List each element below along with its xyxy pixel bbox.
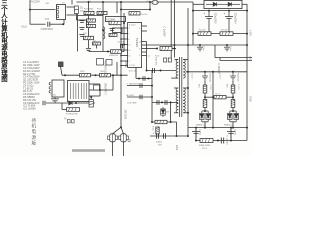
resistor R37 — [156, 127, 159, 134]
junction y33 c — [228, 33, 230, 35]
capacitor C8 bulk — [225, 11, 233, 34]
svg-text:+: + — [223, 12, 225, 16]
capacitor C32 — [51, 97, 59, 103]
junction sb x124 a — [123, 22, 125, 24]
transformer T1 inner windings — [71, 83, 87, 99]
resistor R7 — [220, 32, 233, 36]
junction y44 rail2 — [173, 44, 175, 46]
junction T1 out — [99, 89, 101, 91]
diode D6b — [234, 111, 239, 122]
wire U1 pin vcc — [142, 41, 147, 43]
junction rail188 b — [187, 87, 189, 89]
wire sb link1 — [86, 21, 88, 27]
resistor R14 — [87, 24, 96, 27]
wire D1 to rail — [76, 19, 88, 21]
diode D3 — [222, 2, 240, 6]
wire diode top join1 — [202, 110, 208, 112]
svg-text:+5V: +5V — [249, 56, 252, 61]
wire U1 pin10 out — [142, 30, 147, 32]
wire sb top — [78, 15, 104, 17]
wire stub top — [71, 0, 73, 5]
wire U1 pin c1 — [142, 44, 147, 46]
junction U1 pin 3 rail — [120, 38, 122, 40]
wire filter out bot — [67, 14, 77, 16]
wire T2 sec low tap1 — [183, 87, 188, 89]
junction y122 a — [151, 121, 153, 123]
capacitor C26 — [192, 128, 200, 138]
svg-text:25V: 25V — [158, 144, 162, 146]
wire bus y33 — [193, 33, 247, 35]
wire CY1 right — [50, 23, 64, 25]
wire step y60 — [220, 60, 252, 62]
junction y44 rail — [246, 44, 248, 46]
diode D5a — [200, 111, 205, 122]
vertical text bottom left — [32, 117, 37, 146]
wire vcc bus y44 — [147, 44, 248, 46]
IC U1 internal pin marks — [129, 25, 136, 67]
svg-text:3300u: 3300u — [156, 141, 163, 143]
resistor R11 — [84, 11, 94, 14]
junction y127 a — [195, 127, 197, 129]
junction y10 c — [228, 10, 230, 12]
junction sb bottom — [107, 51, 109, 53]
diode D2 — [206, 2, 222, 6]
junction U1 pin 7 rail — [120, 60, 122, 62]
filter winding marks — [57, 6, 59, 17]
inductor L1 on rail — [103, 27, 105, 39]
capacitor C snub 205 — [202, 72, 208, 81]
svg-text:Rt: Rt — [64, 118, 67, 121]
junction y33 d — [246, 33, 248, 35]
junction y102 b — [170, 101, 172, 103]
svg-text:+12V: +12V — [249, 30, 252, 36]
junction y137 b — [187, 135, 189, 137]
wire y78 up — [135, 68, 137, 79]
wire d2 drop — [232, 122, 234, 128]
junction y10 a — [192, 10, 194, 12]
svg-text:CY1: CY1 — [45, 19, 50, 21]
wire sb mid rail up — [102, 2, 104, 16]
wire R21 to rail — [172, 48, 176, 50]
svg-text:IC3 7905: IC3 7905 — [128, 102, 138, 104]
junction rail188 c — [187, 112, 189, 114]
resistor R20 — [129, 12, 140, 15]
svg-text:DRIVE: DRIVE — [124, 61, 126, 68]
wire filter out top — [67, 6, 77, 8]
transformer T2 core — [180, 57, 182, 117]
capacitor C16 plates — [86, 49, 91, 51]
wire Q1 down — [112, 142, 114, 156]
svg-text:9: 9 — [139, 28, 140, 30]
wire T1 to rail — [100, 89, 113, 91]
transformer T1 main box — [68, 81, 90, 102]
capacitor C15 — [121, 44, 123, 48]
junction rail188 a — [187, 71, 189, 73]
wire T1 out1 — [89, 83, 100, 85]
svg-text:R 4.7k: R 4.7k — [141, 14, 148, 16]
junction y75 c — [112, 74, 114, 76]
junction d1 drop — [204, 127, 206, 129]
resistor R21 — [160, 47, 172, 51]
small box component left of IC — [97, 59, 113, 66]
junction y75 d — [120, 74, 122, 76]
wire T1 out2 — [89, 89, 100, 91]
diode D7 — [161, 107, 166, 117]
wire up to filter — [63, 20, 65, 25]
svg-text:R 330/0.5W: R 330/0.5W — [66, 114, 78, 116]
capacitor C14 — [109, 29, 114, 31]
wire lv y85 — [127, 85, 152, 87]
transformer T2 winding lower right — [183, 88, 185, 113]
svg-text:6: 6 — [128, 39, 129, 41]
junction U1 pin 4 rail — [120, 44, 122, 46]
capacitor C34 — [164, 133, 166, 138]
wire out v2 — [230, 128, 232, 141]
resistor R30 — [203, 85, 207, 93]
capacitor C21 pads — [164, 58, 172, 62]
resistor R34 — [231, 100, 235, 108]
wire top bus left — [76, 1, 151, 3]
wire x176 v — [176, 122, 178, 136]
wire AC lower — [30, 23, 46, 25]
junction elem top — [90, 96, 92, 98]
junction y44 a — [199, 44, 201, 46]
wire x152 low — [151, 71, 153, 123]
wire T2 primary bot tap — [171, 77, 178, 79]
svg-text:POWER GOOD: POWER GOOD — [104, 61, 106, 78]
svg-text:330Ω 1/4W: 330Ω 1/4W — [199, 145, 211, 147]
IC U1 TL494 — [128, 23, 142, 68]
junction y78 b — [148, 78, 150, 80]
svg-text:4700P/250V: 4700P/250V — [41, 29, 54, 31]
wire out top y71 — [186, 71, 247, 73]
svg-text:R3 47k: R3 47k — [221, 30, 229, 32]
wire sb bottom — [89, 51, 125, 53]
svg-text:8 11 12: 8 11 12 — [129, 25, 136, 27]
diode D5b — [206, 111, 211, 122]
wire rail x174 — [173, 0, 175, 58]
svg-text:R11/C25: R11/C25 — [237, 73, 239, 82]
junction y127 d — [246, 127, 248, 129]
junction U1 pin 6 rail — [120, 55, 122, 57]
wire T2 left low tap1 — [174, 87, 178, 89]
wire out bottom y140 — [196, 140, 247, 142]
wire chain1 l3 — [204, 108, 206, 112]
parts list text block — [23, 60, 41, 110]
resistor R16 — [109, 21, 121, 24]
element vertical hatched — [89, 100, 93, 108]
wire step v2 — [219, 58, 221, 61]
resistor R35 — [200, 139, 213, 143]
wire U1 left pin 1 — [121, 27, 128, 29]
wire U1 pin ct — [142, 55, 147, 57]
junction y10 d — [246, 10, 248, 12]
resistor R33 — [231, 85, 235, 93]
svg-text:A u/50V: A u/50V — [127, 94, 135, 97]
wire rail x193 — [192, 2, 194, 45]
junction chain2 mid — [232, 96, 234, 98]
wire U1 left pin 6 — [121, 55, 128, 57]
junction input top — [29, 9, 31, 11]
wire chain2 l2 — [232, 93, 234, 100]
capacitor C11 — [79, 21, 84, 23]
junction at x89 y20 — [88, 19, 90, 21]
junction d2 drop — [232, 127, 234, 129]
junction y140 b — [195, 140, 197, 142]
wire y137 — [150, 135, 188, 137]
junction y33 a — [192, 33, 194, 35]
wire d2 bot — [230, 121, 236, 123]
svg-text:C 103: C 103 — [209, 84, 211, 90]
fuse FU1 — [152, 0, 158, 4]
wire chain2 l3 — [232, 108, 234, 112]
transistor Q2 — [119, 134, 129, 142]
transformer T2 primary winding — [176, 60, 178, 79]
junction diodes1 top — [204, 110, 206, 112]
junction y78 a — [138, 78, 140, 80]
wire rail x247 tail — [246, 128, 248, 141]
junction fb left — [156, 48, 158, 50]
resistor R4a — [100, 74, 111, 77]
junction y75 b — [95, 74, 97, 76]
wire AC line vertical — [29, 0, 31, 24]
IC U1 pin numbers left — [128, 28, 141, 63]
junction diodes2 top — [232, 110, 234, 112]
svg-text:R10/C24: R10/C24 — [209, 73, 211, 82]
wire split right — [121, 127, 124, 134]
svg-text:1000u: 1000u — [234, 129, 236, 136]
wire R23 lead — [62, 109, 67, 111]
wire y97 seg1 — [205, 96, 214, 98]
resistor R19 — [93, 42, 101, 45]
wire out left rail — [187, 8, 189, 136]
wire Q2 down — [123, 142, 125, 156]
wire diode top join2 — [230, 110, 236, 112]
wire T2 sec top tap — [183, 59, 188, 61]
junction rail x89 top — [88, 1, 90, 3]
junction y140 c — [230, 140, 232, 142]
wire x100 v — [99, 84, 101, 96]
wire y78 seg — [136, 78, 152, 80]
wire sb mid rail — [102, 16, 104, 52]
wire split left — [113, 127, 122, 134]
junction sb mid1 — [102, 29, 104, 31]
svg-text:SW: SW — [46, 3, 49, 5]
wire bridge in — [193, 3, 204, 5]
wire rail x117 — [116, 2, 118, 13]
wire y103 ext — [76, 102, 95, 104]
capacitor C28 — [221, 138, 223, 144]
svg-text:Ω: Ω — [128, 138, 131, 143]
resistor R13 — [87, 19, 96, 22]
wire lv y97 — [127, 96, 152, 98]
junction y140 a — [217, 140, 219, 142]
capacitor CY1 — [48, 22, 50, 27]
wire bridge out — [242, 3, 247, 5]
junction y75 a — [64, 74, 66, 76]
capacitor C snub 233 — [230, 72, 236, 81]
wire out v1 — [195, 128, 197, 141]
capacitor C9 stub — [197, 45, 203, 52]
svg-text:13: 13 — [128, 45, 130, 47]
resistor R18 on wire — [111, 50, 122, 54]
wire mid v x213 — [212, 72, 214, 128]
svg-text:GND: GND — [249, 96, 252, 102]
junction y71 a — [204, 71, 206, 73]
junction y127 b — [212, 127, 214, 129]
svg-text:15: 15 — [128, 56, 130, 58]
capacitor C33 — [157, 133, 159, 138]
diode D6a — [228, 111, 233, 122]
junction R21 rail — [173, 48, 175, 50]
gray bar under transistors — [72, 149, 105, 152]
svg-text:330u/200V: 330u/200V — [214, 13, 216, 25]
wire bus y10 — [193, 10, 247, 12]
junction U1 pin 8 rail — [120, 65, 122, 67]
svg-text:C 1000u/16V: C 1000u/16V — [127, 83, 140, 85]
component right of T1 — [94, 85, 100, 90]
transformer T2 secondary winding upper — [183, 60, 185, 79]
transformer T1 left windings — [49, 83, 51, 94]
wire U1 left pin 8 — [121, 65, 128, 67]
junction y122 b — [170, 121, 172, 123]
svg-text:AC220V: AC220V — [31, 1, 40, 4]
svg-text:C 1u/50V: C 1u/50V — [163, 27, 166, 37]
svg-text:2SC3039: 2SC3039 — [123, 110, 125, 120]
junction sb rail top — [102, 1, 104, 3]
wire rail x121 — [120, 2, 122, 127]
capacitor C5a — [140, 83, 142, 88]
svg-text:N1Ω: N1Ω — [22, 26, 27, 29]
capacitor C30 — [165, 100, 167, 105]
svg-text:C 1u: C 1u — [202, 46, 204, 51]
wire U1 left pin 3 — [121, 38, 128, 40]
junction y71 b — [232, 71, 234, 73]
svg-text:C15 102: C15 102 — [117, 41, 126, 43]
junction sb x124 b — [123, 44, 125, 46]
IC U3 box — [106, 17, 126, 22]
wire R23 left — [61, 103, 63, 110]
wire x150 drop — [149, 2, 151, 10]
svg-text:C30 472: C30 472 — [155, 57, 157, 66]
wire T1 left bot — [54, 96, 56, 98]
svg-text:2: 2 — [128, 61, 129, 63]
resistor R5a — [80, 74, 91, 77]
svg-text:C 472: C 472 — [219, 73, 221, 79]
resistor R36 — [155, 120, 167, 123]
junction y44 b — [226, 44, 228, 46]
capacitor C13 — [79, 35, 84, 37]
junction R31 left — [212, 96, 214, 98]
wire elem up — [90, 97, 92, 100]
svg-text:+: + — [203, 12, 205, 16]
line filter T0 box — [57, 5, 66, 20]
svg-text:220u: 220u — [175, 145, 177, 151]
wire x170 seg — [170, 102, 172, 122]
capacitor C12 — [79, 28, 84, 30]
svg-text:TL494: TL494 — [135, 38, 139, 47]
resistor R32 — [203, 100, 207, 108]
wire T2 sec low tap2 — [183, 112, 188, 114]
connector left end — [59, 62, 64, 67]
svg-text:5W R: 5W R — [202, 148, 208, 150]
wire U1 pin fb — [142, 48, 157, 50]
wire y102 — [152, 101, 178, 103]
svg-text:16 15 14: 16 15 14 — [129, 71, 136, 73]
wire chain2 l1 — [232, 81, 234, 85]
junction U1 pin 2 rail — [120, 33, 122, 35]
wire U1 pin9 out — [142, 25, 147, 27]
capacitor C10 stub — [224, 45, 230, 52]
wire x113 v — [112, 75, 114, 90]
resistor R31 — [214, 96, 226, 99]
transistor Q1 — [108, 134, 118, 142]
junction CY1 right — [62, 23, 64, 25]
junction rail188 top — [187, 44, 189, 46]
junction split — [120, 126, 122, 128]
wire conn diag — [61, 67, 63, 76]
svg-text:C 1u: C 1u — [229, 46, 231, 51]
transistor Q3 box — [113, 28, 123, 32]
wire chain1 l1 — [204, 81, 206, 85]
wire U1 left pin 5 — [121, 49, 128, 51]
wire y75 left — [62, 74, 128, 76]
svg-text:DRIVER T1: DRIVER T1 — [104, 83, 106, 96]
transformer T2 winding lower left — [176, 88, 178, 113]
svg-text:版: 版 — [32, 139, 37, 146]
svg-text:电: 电 — [32, 128, 37, 134]
wire bottom bus y127 — [188, 127, 247, 129]
wire T2 primary top tap — [174, 59, 178, 61]
resistor R15 — [84, 36, 94, 39]
svg-text:图: 图 — [1, 74, 7, 83]
svg-text:C 1u/25V: C 1u/25V — [226, 136, 228, 146]
junction y102 a — [161, 101, 163, 103]
wire top bus right — [158, 1, 193, 3]
wire rail x171 — [170, 0, 172, 58]
wire x117 seg — [116, 62, 118, 75]
capacitor C22 — [153, 68, 155, 73]
svg-text:1 2 16: 1 2 16 — [129, 65, 135, 67]
diode D1 — [74, 6, 78, 14]
svg-text:C 10u: C 10u — [51, 94, 57, 96]
wire y103 — [46, 102, 68, 104]
junction cap y70 b — [160, 70, 162, 72]
svg-text:330u/200V: 330u/200V — [234, 13, 236, 25]
junction chain1 mid — [204, 96, 206, 98]
junction y10 b — [208, 10, 210, 12]
resistor R17 — [109, 34, 117, 37]
junction U1 pin 5 rail — [120, 49, 122, 51]
wire rail x247 — [246, 4, 248, 128]
svg-text:C 103: C 103 — [237, 84, 239, 90]
wire step v — [214, 45, 216, 58]
junction x121 y9 — [120, 9, 122, 11]
junction y103 d — [75, 102, 77, 104]
wire rail x89 — [88, 2, 90, 48]
wire sb left rail — [77, 14, 79, 52]
resistor R12 — [97, 11, 107, 14]
svg-text:4: 4 — [128, 28, 129, 30]
capacitor C7 bulk — [205, 11, 213, 34]
wire chain1 l2 — [204, 93, 206, 100]
junction lv2 — [151, 96, 153, 98]
svg-text:5: 5 — [139, 55, 140, 57]
junction y137 a — [176, 135, 178, 137]
wire sb rail x124 — [123, 13, 125, 52]
wire T2 left low tap2 — [174, 112, 178, 114]
bridge rectifier box — [204, 0, 242, 8]
